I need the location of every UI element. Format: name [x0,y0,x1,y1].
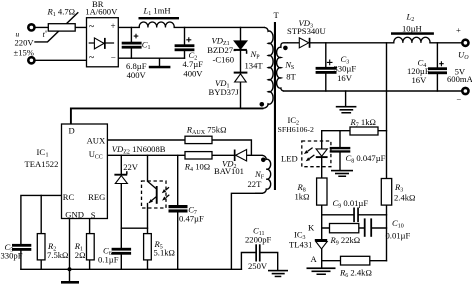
svg-text:R9 22kΩ: R9 22kΩ [330,235,361,247]
svg-text:0.01µF: 0.01µF [386,230,411,240]
svg-text:8T: 8T [286,72,296,82]
svg-text:0.1µF: 0.1µF [98,255,119,265]
svg-text:22T: 22T [248,179,263,189]
svg-text:C9 0.01µF: C9 0.01µF [333,198,369,210]
svg-text:7.5kΩ: 7.5kΩ [47,250,68,260]
svg-text:TL431: TL431 [289,240,312,250]
svg-text:R4 10Ω: R4 10Ω [184,162,210,174]
svg-text:STPS340U: STPS340U [287,26,326,36]
svg-text:134T: 134T [245,61,264,71]
svg-text:BYD37J: BYD37J [209,87,240,97]
svg-text:R1 4.7Ω: R1 4.7Ω [47,6,76,17]
svg-text:220V: 220V [15,37,35,47]
svg-text:4.7µF: 4.7µF [183,59,204,69]
svg-text:600mA: 600mA [447,74,472,84]
svg-text:22V: 22V [123,162,139,172]
svg-text:330pF: 330pF [1,250,23,260]
svg-text:TEA1522: TEA1522 [25,159,59,169]
svg-text:16V: 16V [412,75,428,85]
svg-text:~: ~ [89,52,95,63]
svg-text:+: + [456,25,461,35]
svg-text:R7 1kΩ: R7 1kΩ [350,117,376,129]
svg-text:330µF: 330µF [334,64,357,74]
svg-text:R6 2.4kΩ: R6 2.4kΩ [339,268,372,280]
svg-text:5.1kΩ: 5.1kΩ [154,248,175,258]
svg-text:±15%: ±15% [14,47,34,57]
svg-text:RAUX 75kΩ: RAUX 75kΩ [186,124,227,136]
svg-text:VDZ2 1N6008B: VDZ2 1N6008B [112,144,166,156]
svg-text:1: 1 [46,153,49,159]
svg-text:T: T [274,10,280,20]
svg-text:K: K [308,222,315,232]
svg-text:−: − [111,53,116,63]
svg-text:RC: RC [63,192,75,202]
svg-text:1A/600V: 1A/600V [85,6,118,16]
svg-text:L1 1mH: L1 1mH [143,6,171,18]
svg-text:250V: 250V [248,261,268,271]
svg-text:LED: LED [281,154,298,164]
svg-text:-C160: -C160 [213,54,234,64]
svg-text:−: − [456,94,461,104]
svg-text:400V: 400V [127,70,147,80]
svg-text:16V: 16V [337,73,353,83]
svg-text:+: + [111,21,116,31]
svg-text:D: D [69,126,75,136]
svg-text:AUX: AUX [87,135,106,145]
svg-text:2200pF: 2200pF [245,235,271,245]
svg-text:SFH6106-2: SFH6106-2 [278,125,314,134]
svg-text:2Ω: 2Ω [75,250,86,260]
svg-text:400V: 400V [183,68,203,78]
svg-text:0.47µF: 0.47µF [179,214,204,224]
svg-text:2.4kΩ: 2.4kΩ [394,193,415,203]
svg-text:GND: GND [65,209,84,219]
svg-text:10µH: 10µH [402,23,422,33]
svg-text:A: A [311,254,318,264]
svg-text:S: S [91,210,96,220]
svg-text:1kΩ: 1kΩ [295,192,310,202]
svg-text:IC: IC [37,147,46,157]
svg-text:CC: CC [95,155,103,161]
svg-text:BAV101: BAV101 [214,166,244,176]
svg-text:REG: REG [88,192,105,202]
svg-text:~: ~ [89,21,95,32]
